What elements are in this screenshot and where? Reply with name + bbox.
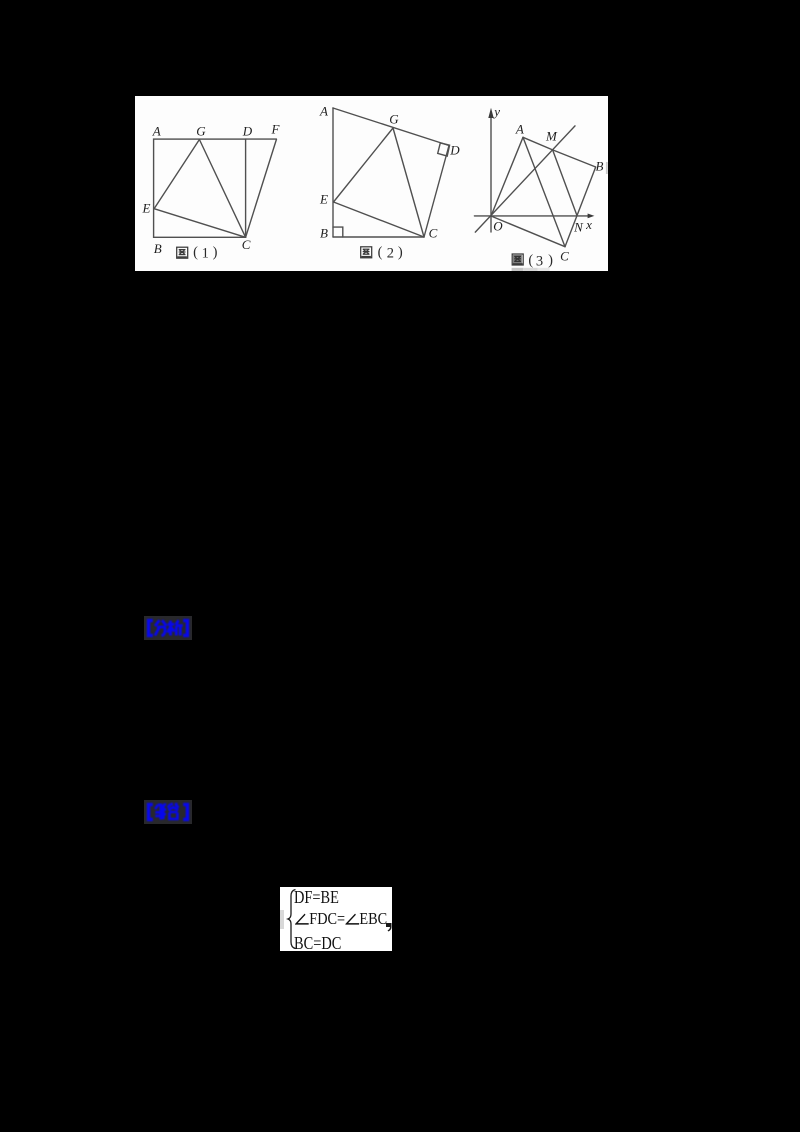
svg-text:A: A — [319, 104, 328, 119]
svg-text:B: B — [154, 241, 162, 256]
svg-text:A: A — [515, 121, 524, 136]
svg-text:E: E — [319, 192, 328, 207]
svg-text:2: 2 — [387, 245, 394, 261]
svg-text:(: ( — [378, 245, 383, 261]
svg-text:M: M — [545, 128, 558, 143]
svg-text:): ) — [398, 245, 403, 261]
svg-text:N: N — [573, 219, 584, 234]
svg-text:1: 1 — [202, 245, 209, 261]
svg-text:F: F — [271, 122, 281, 137]
svg-text:O: O — [493, 219, 503, 234]
svg-text:C: C — [429, 226, 438, 241]
svg-text:(: ( — [193, 245, 198, 261]
svg-text:(: ( — [528, 253, 533, 269]
svg-text:A: A — [152, 124, 161, 139]
svg-text:D: D — [449, 143, 460, 158]
svg-text:E: E — [142, 201, 151, 216]
svg-text:): ) — [548, 253, 553, 269]
svg-text:B: B — [596, 159, 604, 174]
svg-text:C: C — [242, 237, 251, 252]
svg-text:G: G — [196, 124, 206, 139]
svg-text:B: B — [320, 226, 328, 241]
svg-text:G: G — [389, 112, 399, 127]
svg-text:3: 3 — [536, 253, 543, 269]
svg-text:x: x — [585, 217, 592, 232]
svg-text:): ) — [213, 245, 218, 261]
svg-text:y: y — [492, 104, 500, 119]
svg-text:D: D — [242, 124, 253, 139]
svg-text:C: C — [560, 248, 569, 263]
